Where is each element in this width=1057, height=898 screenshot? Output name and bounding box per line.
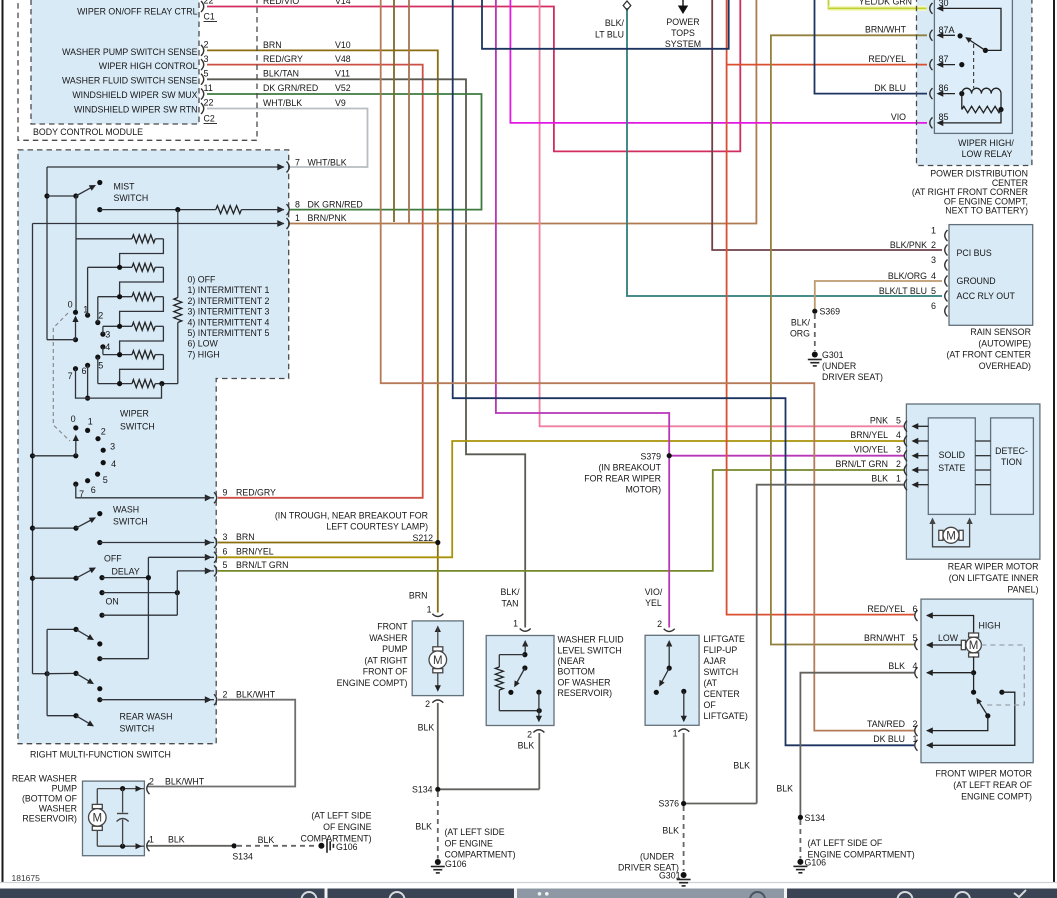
svg-text:RAIN SENSOR: RAIN SENSOR [970, 327, 1031, 337]
svg-text:7: 7 [68, 371, 73, 381]
svg-text:BODY CONTROL MODULE: BODY CONTROL MODULE [33, 127, 143, 137]
svg-text:DETEC-: DETEC- [995, 446, 1028, 456]
svg-text:LOW: LOW [938, 633, 959, 643]
svg-text:G106: G106 [445, 859, 467, 869]
svg-text:RED/YEL: RED/YEL [867, 604, 905, 614]
svg-text:1: 1 [513, 619, 518, 629]
svg-text:BLK/WHT: BLK/WHT [165, 776, 205, 786]
svg-text:RESERVOIR): RESERVOIR) [558, 688, 613, 698]
svg-text:22: 22 [204, 98, 214, 108]
svg-text:WIPER ON/OFF RELAY CTRL: WIPER ON/OFF RELAY CTRL [77, 7, 198, 17]
svg-text:BLK: BLK [733, 761, 750, 771]
svg-text:4: 4 [896, 430, 901, 440]
svg-text:S134: S134 [412, 785, 433, 795]
svg-text:2: 2 [149, 776, 154, 786]
svg-text:WASH: WASH [113, 505, 139, 515]
svg-text:9: 9 [223, 488, 228, 498]
svg-text:BRN/YEL: BRN/YEL [236, 547, 274, 557]
svg-text:BLK: BLK [518, 741, 535, 751]
svg-text:S212: S212 [412, 533, 433, 543]
svg-text:2: 2 [896, 459, 901, 469]
svg-text:5: 5 [931, 286, 936, 296]
svg-text:86: 86 [939, 83, 949, 93]
svg-text:GROUND: GROUND [957, 276, 996, 286]
svg-text:22: 22 [204, 0, 214, 6]
svg-text:1: 1 [83, 305, 88, 315]
svg-text:C1: C1 [204, 12, 215, 22]
svg-text:BRN: BRN [409, 591, 428, 601]
svg-text:G301: G301 [822, 350, 844, 360]
svg-text:SWITCH: SWITCH [120, 422, 155, 432]
svg-text:181675: 181675 [12, 873, 41, 883]
svg-text:(AT RIGHT: (AT RIGHT [364, 655, 408, 665]
svg-text:BRN: BRN [236, 532, 255, 542]
svg-text:87A: 87A [939, 25, 955, 35]
svg-text:FRONT: FRONT [377, 622, 408, 632]
svg-text:5: 5 [98, 361, 103, 371]
svg-text:7) HIGH: 7) HIGH [188, 349, 220, 359]
svg-text:2: 2 [101, 427, 106, 437]
svg-text:STATE: STATE [938, 463, 965, 473]
svg-text:HIGH: HIGH [979, 621, 1001, 631]
svg-text:FLIP-UP: FLIP-UP [704, 645, 738, 655]
svg-text:4: 4 [111, 459, 116, 469]
svg-text:2: 2 [204, 40, 209, 50]
svg-text:(NEAR: (NEAR [558, 656, 585, 666]
svg-text:WASHER FLUID SWITCH SENSE: WASHER FLUID SWITCH SENSE [62, 76, 198, 86]
svg-text:87: 87 [939, 54, 949, 64]
svg-text:RIGHT MULTI-FUNCTION SWITCH: RIGHT MULTI-FUNCTION SWITCH [30, 750, 171, 760]
svg-text:RED/GRY: RED/GRY [236, 488, 276, 498]
svg-text:FRONT OF: FRONT OF [363, 667, 408, 677]
svg-text:11: 11 [204, 83, 213, 93]
svg-text:(AUTOWIPE): (AUTOWIPE) [978, 338, 1031, 348]
svg-text:2: 2 [223, 689, 228, 699]
svg-text:LIFTGATE): LIFTGATE) [704, 711, 748, 721]
svg-text:OFF: OFF [104, 554, 122, 564]
svg-text:V14: V14 [335, 0, 351, 6]
svg-text:3: 3 [110, 442, 115, 452]
svg-text:WASHER PUMP SWITCH SENSE: WASHER PUMP SWITCH SENSE [62, 47, 198, 57]
svg-text:V9: V9 [335, 98, 346, 108]
svg-text:V11: V11 [335, 69, 350, 79]
svg-text:S134: S134 [232, 852, 253, 862]
svg-text:(AT LEFT REAR OF: (AT LEFT REAR OF [953, 780, 1032, 790]
svg-text:SWITCH: SWITCH [120, 724, 155, 734]
svg-text:3: 3 [223, 532, 228, 542]
svg-text:8: 8 [295, 200, 300, 210]
svg-text:1: 1 [931, 226, 936, 236]
svg-text:1: 1 [896, 474, 901, 484]
svg-text:4: 4 [105, 342, 110, 352]
svg-text:MIST: MIST [114, 181, 136, 191]
svg-text:WASHER: WASHER [39, 803, 77, 813]
svg-text:ENGINE COMPT): ENGINE COMPT) [961, 791, 1032, 801]
svg-text:4) INTERMITTENT 4: 4) INTERMITTENT 4 [188, 317, 270, 327]
svg-text:2: 2 [913, 719, 918, 729]
svg-text:DELAY: DELAY [112, 567, 140, 577]
svg-text:WIPER HIGH/: WIPER HIGH/ [958, 138, 1014, 148]
svg-text:2: 2 [425, 699, 430, 709]
svg-text:ON: ON [106, 597, 119, 607]
svg-text:85: 85 [939, 112, 949, 122]
svg-text:LEVEL SWITCH: LEVEL SWITCH [558, 645, 622, 655]
svg-text:BRN/LT GRN: BRN/LT GRN [836, 459, 888, 469]
svg-text:S379: S379 [640, 452, 661, 462]
svg-text:BLK: BLK [662, 826, 679, 836]
svg-text:1: 1 [427, 604, 432, 614]
svg-text:6: 6 [931, 301, 936, 311]
svg-text:V52: V52 [335, 83, 351, 93]
svg-text:S376: S376 [658, 799, 679, 809]
svg-text:0: 0 [71, 414, 76, 424]
svg-text:C2: C2 [204, 114, 215, 124]
svg-text:SWITCH: SWITCH [113, 517, 148, 527]
svg-text:0) OFF: 0) OFF [188, 275, 216, 285]
svg-text:POWER: POWER [666, 17, 699, 27]
svg-text:2: 2 [527, 730, 532, 740]
svg-text:REAR WASHER: REAR WASHER [12, 773, 77, 783]
svg-text:M: M [946, 531, 956, 543]
svg-text:3) INTERMITTENT 3: 3) INTERMITTENT 3 [188, 307, 270, 317]
svg-text:BLK/PNK: BLK/PNK [890, 240, 927, 250]
svg-text:BLK: BLK [418, 723, 435, 733]
svg-text:(AT FRONT CENTER: (AT FRONT CENTER [946, 350, 1031, 360]
svg-text:3: 3 [896, 445, 901, 455]
svg-text:DK GRN/RED: DK GRN/RED [308, 200, 363, 210]
svg-text:2: 2 [98, 311, 103, 321]
svg-text:WHT/BLK: WHT/BLK [263, 98, 302, 108]
svg-text:NEXT TO BATTERY): NEXT TO BATTERY) [945, 206, 1028, 216]
svg-text:TION: TION [1001, 457, 1022, 467]
svg-text:5: 5 [896, 415, 901, 425]
svg-text:VIO/: VIO/ [645, 587, 663, 597]
svg-text:RED/YEL: RED/YEL [868, 54, 906, 64]
svg-text:LT BLU: LT BLU [595, 30, 624, 40]
svg-text:1) INTERMITTENT 1: 1) INTERMITTENT 1 [188, 285, 270, 295]
svg-text:BOTTOM: BOTTOM [558, 667, 595, 677]
svg-text:V10: V10 [335, 40, 351, 50]
svg-text:3: 3 [204, 54, 209, 64]
svg-text:5: 5 [223, 560, 228, 570]
svg-text:SOLID: SOLID [939, 450, 965, 460]
svg-text:RESERVOIR): RESERVOIR) [22, 813, 77, 823]
svg-text:BLK/LT BLU: BLK/LT BLU [879, 286, 927, 296]
svg-text:BLK: BLK [776, 784, 793, 794]
svg-text:WIPER: WIPER [120, 409, 149, 419]
svg-text:4: 4 [931, 271, 936, 281]
svg-text:BLK/ORG: BLK/ORG [888, 271, 927, 281]
svg-text:CENTER: CENTER [704, 689, 740, 699]
svg-text:BLK: BLK [888, 661, 905, 671]
svg-text:1: 1 [149, 835, 154, 845]
svg-text:(AT LEFT SIDE OF: (AT LEFT SIDE OF [808, 838, 883, 848]
svg-text:1: 1 [88, 416, 93, 426]
svg-text:(BOTTOM OF: (BOTTOM OF [22, 793, 78, 803]
svg-text:PUMP: PUMP [52, 783, 78, 793]
svg-text:BRN/WHT: BRN/WHT [864, 633, 906, 643]
svg-text:S369: S369 [820, 307, 841, 317]
svg-text:DRIVER SEAT): DRIVER SEAT) [822, 372, 883, 382]
svg-text:TAN: TAN [502, 598, 519, 608]
svg-text:ENGINE COMPT): ENGINE COMPT) [337, 678, 408, 688]
svg-text:6: 6 [223, 547, 228, 557]
svg-text:V48: V48 [335, 54, 351, 64]
svg-text:BRN/LT GRN: BRN/LT GRN [236, 560, 288, 570]
svg-text:BLK/: BLK/ [791, 317, 811, 327]
svg-text:LOW RELAY: LOW RELAY [962, 149, 1013, 159]
svg-text:5: 5 [913, 633, 918, 643]
svg-text:WINDSHIELD WIPER SW MUX: WINDSHIELD WIPER SW MUX [72, 90, 197, 100]
svg-text:BRN/PNK: BRN/PNK [308, 213, 347, 223]
svg-text:6: 6 [913, 604, 918, 614]
svg-text:BLK: BLK [871, 474, 888, 484]
svg-text:(UNDER: (UNDER [640, 852, 674, 862]
svg-text:OF ENGINE: OF ENGINE [445, 838, 494, 848]
svg-text:M: M [969, 640, 979, 652]
svg-text:VIO: VIO [891, 112, 906, 122]
svg-text:(AT: (AT [704, 678, 718, 688]
svg-text:YEL/DK GRN: YEL/DK GRN [859, 0, 912, 7]
svg-text:BLK: BLK [168, 835, 185, 845]
svg-text:OVERHEAD): OVERHEAD) [979, 361, 1031, 371]
svg-text:ORG: ORG [790, 328, 810, 338]
svg-text:6: 6 [81, 366, 86, 376]
svg-text:OF WASHER: OF WASHER [558, 677, 611, 687]
svg-text:AJAR: AJAR [704, 656, 727, 666]
svg-text:BLK/WHT: BLK/WHT [236, 689, 276, 699]
svg-text:1: 1 [913, 734, 918, 744]
svg-text:TAN/RED: TAN/RED [867, 719, 905, 729]
svg-text:BLK: BLK [258, 835, 275, 845]
svg-text:MOTOR): MOTOR) [625, 485, 661, 495]
svg-text:(IN BREAKOUT: (IN BREAKOUT [598, 463, 661, 473]
svg-text:(ON LIFTGATE INNER: (ON LIFTGATE INNER [949, 573, 1039, 583]
svg-text:6) LOW: 6) LOW [188, 339, 219, 349]
svg-text:LIFTGATE: LIFTGATE [704, 634, 746, 644]
svg-text:2: 2 [657, 619, 662, 629]
svg-text:PUMP: PUMP [382, 644, 408, 654]
svg-text:WASHER: WASHER [369, 633, 407, 643]
svg-text:1: 1 [673, 729, 678, 739]
svg-text:FOR REAR WIPER: FOR REAR WIPER [584, 474, 661, 484]
svg-text:G301: G301 [659, 871, 681, 881]
svg-text:3: 3 [931, 255, 936, 265]
svg-text:(AT LEFT SIDE: (AT LEFT SIDE [445, 827, 505, 837]
svg-text:2: 2 [931, 240, 936, 250]
svg-text:M: M [93, 813, 103, 825]
svg-text:YEL: YEL [645, 598, 662, 608]
svg-text:BLK/: BLK/ [500, 587, 520, 597]
svg-text:RED/VIO: RED/VIO [263, 0, 299, 6]
svg-text:DK GRN/RED: DK GRN/RED [263, 83, 318, 93]
svg-text:BRN/WHT: BRN/WHT [865, 25, 907, 35]
svg-text:WASHER FLUID: WASHER FLUID [558, 635, 624, 645]
svg-text:4: 4 [913, 661, 918, 671]
svg-text:G106: G106 [805, 858, 827, 868]
svg-text:VIO/YEL: VIO/YEL [854, 445, 888, 455]
svg-text:S134: S134 [805, 813, 826, 823]
svg-text:SYSTEM: SYSTEM [665, 39, 701, 49]
svg-text:LEFT COURTESY LAMP): LEFT COURTESY LAMP) [326, 522, 428, 532]
svg-text:WHT/BLK: WHT/BLK [308, 158, 347, 168]
svg-text:M: M [433, 655, 443, 667]
svg-text:30: 30 [939, 0, 949, 8]
svg-text:DK BLU: DK BLU [874, 83, 906, 93]
svg-text:5) INTERMITTENT 5: 5) INTERMITTENT 5 [188, 328, 270, 338]
svg-text:3: 3 [105, 330, 110, 340]
svg-text:BLK: BLK [415, 822, 432, 832]
svg-text:OF ENGINE: OF ENGINE [323, 822, 372, 832]
svg-text:7: 7 [295, 158, 300, 168]
svg-text:1: 1 [295, 213, 300, 223]
svg-text:BRN/YEL: BRN/YEL [850, 430, 888, 440]
svg-text:OF: OF [704, 700, 717, 710]
svg-text:0: 0 [68, 300, 73, 310]
svg-text:FRONT WIPER MOTOR: FRONT WIPER MOTOR [936, 769, 1032, 779]
svg-text:REAR WIPER MOTOR: REAR WIPER MOTOR [948, 562, 1039, 572]
svg-text:(IN TROUGH, NEAR BREAKOUT FOR: (IN TROUGH, NEAR BREAKOUT FOR [275, 511, 428, 521]
svg-text:G106: G106 [336, 842, 358, 852]
svg-text:(UNDER: (UNDER [822, 361, 856, 371]
svg-text:WINDSHIELD WIPER SW RTN: WINDSHIELD WIPER SW RTN [74, 105, 198, 115]
svg-text:SWITCH: SWITCH [114, 193, 149, 203]
svg-text:ACC RLY OUT: ACC RLY OUT [957, 291, 1016, 301]
svg-text:PNK: PNK [870, 415, 888, 425]
svg-text:TOPS: TOPS [671, 28, 695, 38]
svg-text:PCI BUS: PCI BUS [957, 248, 992, 258]
svg-text:BLK/TAN: BLK/TAN [263, 69, 299, 79]
svg-text:BLK/: BLK/ [605, 18, 625, 28]
svg-text:REAR WASH: REAR WASH [120, 712, 173, 722]
svg-text:(AT LEFT SIDE: (AT LEFT SIDE [311, 811, 371, 821]
svg-text:RED/GRY: RED/GRY [263, 54, 303, 64]
svg-text:WIPER HIGH CONTROL: WIPER HIGH CONTROL [99, 61, 198, 71]
svg-text:2) INTERMITTENT 2: 2) INTERMITTENT 2 [188, 296, 270, 306]
svg-text:BRN: BRN [263, 40, 282, 50]
svg-text:DK BLU: DK BLU [873, 734, 905, 744]
svg-text:SWITCH: SWITCH [704, 667, 739, 677]
svg-text:5: 5 [204, 69, 209, 79]
svg-text:6: 6 [91, 485, 96, 495]
svg-text:PANEL): PANEL) [1007, 585, 1038, 595]
svg-text:5: 5 [103, 475, 108, 485]
